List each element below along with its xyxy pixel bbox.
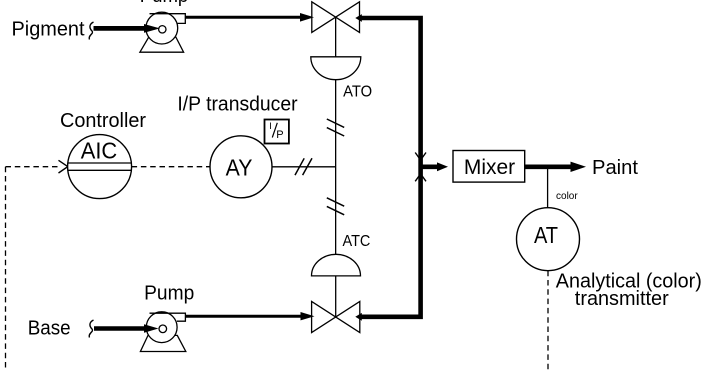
arrowhead up into junction xyxy=(415,174,426,182)
valve V1 stem xyxy=(335,17,337,57)
valve V2 (ATC) body xyxy=(312,302,360,333)
svg-text:P: P xyxy=(276,129,283,141)
instrument AT xyxy=(517,208,580,271)
wire: dashed signal into controller xyxy=(6,166,59,168)
wire: dashed signal AIC to AY xyxy=(132,166,210,168)
signal slashes lower pair xyxy=(327,198,344,206)
wire: sample branch to AT xyxy=(547,169,549,208)
wire: pump P1 discharge to valve xyxy=(185,16,301,19)
pump P2 casing xyxy=(146,312,177,343)
wire: dashed from AT down xyxy=(547,271,549,370)
svg-text:Paint: Paint xyxy=(592,157,638,179)
valve V1 actuator diaphragm xyxy=(311,57,361,80)
wire: pump P2 discharge to valve xyxy=(185,315,301,318)
svg-text:color: color xyxy=(556,191,578,202)
svg-text:AT: AT xyxy=(534,222,558,248)
pump P2 (base) base xyxy=(140,335,185,351)
svg-text:Pump: Pump xyxy=(140,0,189,7)
wire: thick process pipe right side (valve V1 to corner, down, to valve V2) xyxy=(359,18,421,317)
wire: junction to mixer xyxy=(421,165,439,170)
wire: AY output to valve line xyxy=(272,166,336,168)
instrument AIC xyxy=(68,135,132,199)
svg-text:Pump: Pump xyxy=(144,283,194,305)
pump P1 casing xyxy=(146,12,178,44)
wire: base feed line xyxy=(94,326,145,331)
svg-text:AIC: AIC xyxy=(81,137,118,163)
svg-text:I/P transducer: I/P transducer xyxy=(177,93,297,115)
I/P tag box xyxy=(265,120,289,144)
svg-text:Controller: Controller xyxy=(60,110,146,132)
svg-text:Base: Base xyxy=(28,317,71,339)
svg-text:AY: AY xyxy=(226,155,253,181)
valve V2 actuator diaphragm xyxy=(312,254,361,276)
wire: pneumatic signal vertical (ATO to ATC) xyxy=(335,80,337,255)
nub arrow at valve V2 outlet xyxy=(355,313,362,321)
pump P2 volute outlet xyxy=(150,313,186,321)
wire: mixer outlet to Paint xyxy=(525,165,572,170)
signal slashes upper pair xyxy=(327,119,344,127)
svg-text:ATC: ATC xyxy=(343,233,371,250)
pipe break squiggle (bottom) xyxy=(89,320,93,338)
svg-text:Mixer: Mixer xyxy=(464,155,515,179)
svg-text:I: I xyxy=(269,121,272,132)
pump P2 inlet eye xyxy=(159,325,167,333)
signal slashes on AY output xyxy=(295,158,304,175)
pump P1 (pigment) base xyxy=(140,37,184,52)
pump P1 volute outlet xyxy=(150,14,186,24)
valve V2 stem xyxy=(335,276,337,317)
arrowhead down into junction xyxy=(415,153,426,161)
pump P1 inlet eye xyxy=(159,26,166,33)
mixer box xyxy=(453,151,525,183)
svg-text:transmitter: transmitter xyxy=(575,288,669,310)
valve V1 (ATO) body xyxy=(312,2,360,33)
wire: left dashed signal vertical xyxy=(5,167,7,370)
instrument AY xyxy=(210,136,272,198)
arrowhead into AIC xyxy=(59,160,68,173)
svg-text:ATO: ATO xyxy=(343,84,372,101)
nub arrow at valve V1 outlet xyxy=(355,14,362,22)
wire: pigment feed line xyxy=(94,26,147,31)
svg-text:Pigment: Pigment xyxy=(12,19,85,41)
pipe break squiggle (top) xyxy=(89,22,93,40)
